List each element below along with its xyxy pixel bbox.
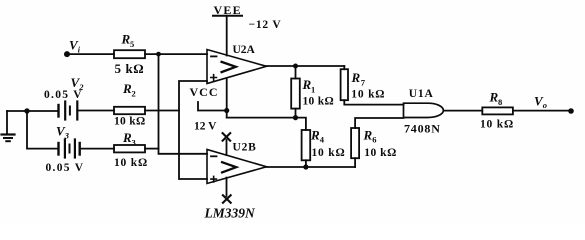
svg-text:0.05 V: 0.05 V [46,162,85,174]
svg-text:0.05 V: 0.05 V [44,89,83,101]
svg-text:U2B: U2B [233,142,257,154]
svg-text:U1A: U1A [409,88,434,100]
svg-text:10 kΩ: 10 kΩ [364,147,396,159]
svg-text:o: o [543,100,547,110]
svg-text:R: R [310,127,320,142]
svg-text:3: 3 [132,138,136,148]
svg-text:R: R [121,32,131,47]
svg-text:R: R [351,70,361,85]
svg-text:10 kΩ: 10 kΩ [480,119,514,131]
svg-text:VEE: VEE [214,3,242,17]
svg-text:VCC: VCC [190,85,219,99]
svg-text:4: 4 [320,134,325,144]
svg-text:R: R [122,130,132,145]
svg-text:3: 3 [64,131,70,141]
svg-text:7408N: 7408N [404,122,441,136]
svg-text:R: R [122,81,132,96]
svg-text:1: 1 [311,84,315,94]
svg-text:7: 7 [361,77,366,87]
svg-text:12 V: 12 V [194,121,217,133]
svg-text:R: R [489,90,499,105]
svg-text:10 kΩ: 10 kΩ [114,157,148,169]
svg-text:−12 V: −12 V [249,19,282,31]
svg-text:8: 8 [498,97,502,107]
svg-text:2: 2 [132,88,136,98]
svg-text:10 kΩ: 10 kΩ [351,89,385,101]
svg-text:LM339N: LM339N [204,206,257,221]
svg-text:5: 5 [130,39,134,49]
svg-text:R: R [363,127,373,142]
svg-text:5 kΩ: 5 kΩ [115,61,145,76]
svg-text:6: 6 [372,134,376,144]
svg-text:10 kΩ: 10 kΩ [303,96,334,108]
svg-text:U2A: U2A [233,44,256,56]
svg-text:10 kΩ: 10 kΩ [114,116,145,128]
svg-text:R: R [302,77,312,92]
svg-text:10 kΩ: 10 kΩ [312,147,346,159]
